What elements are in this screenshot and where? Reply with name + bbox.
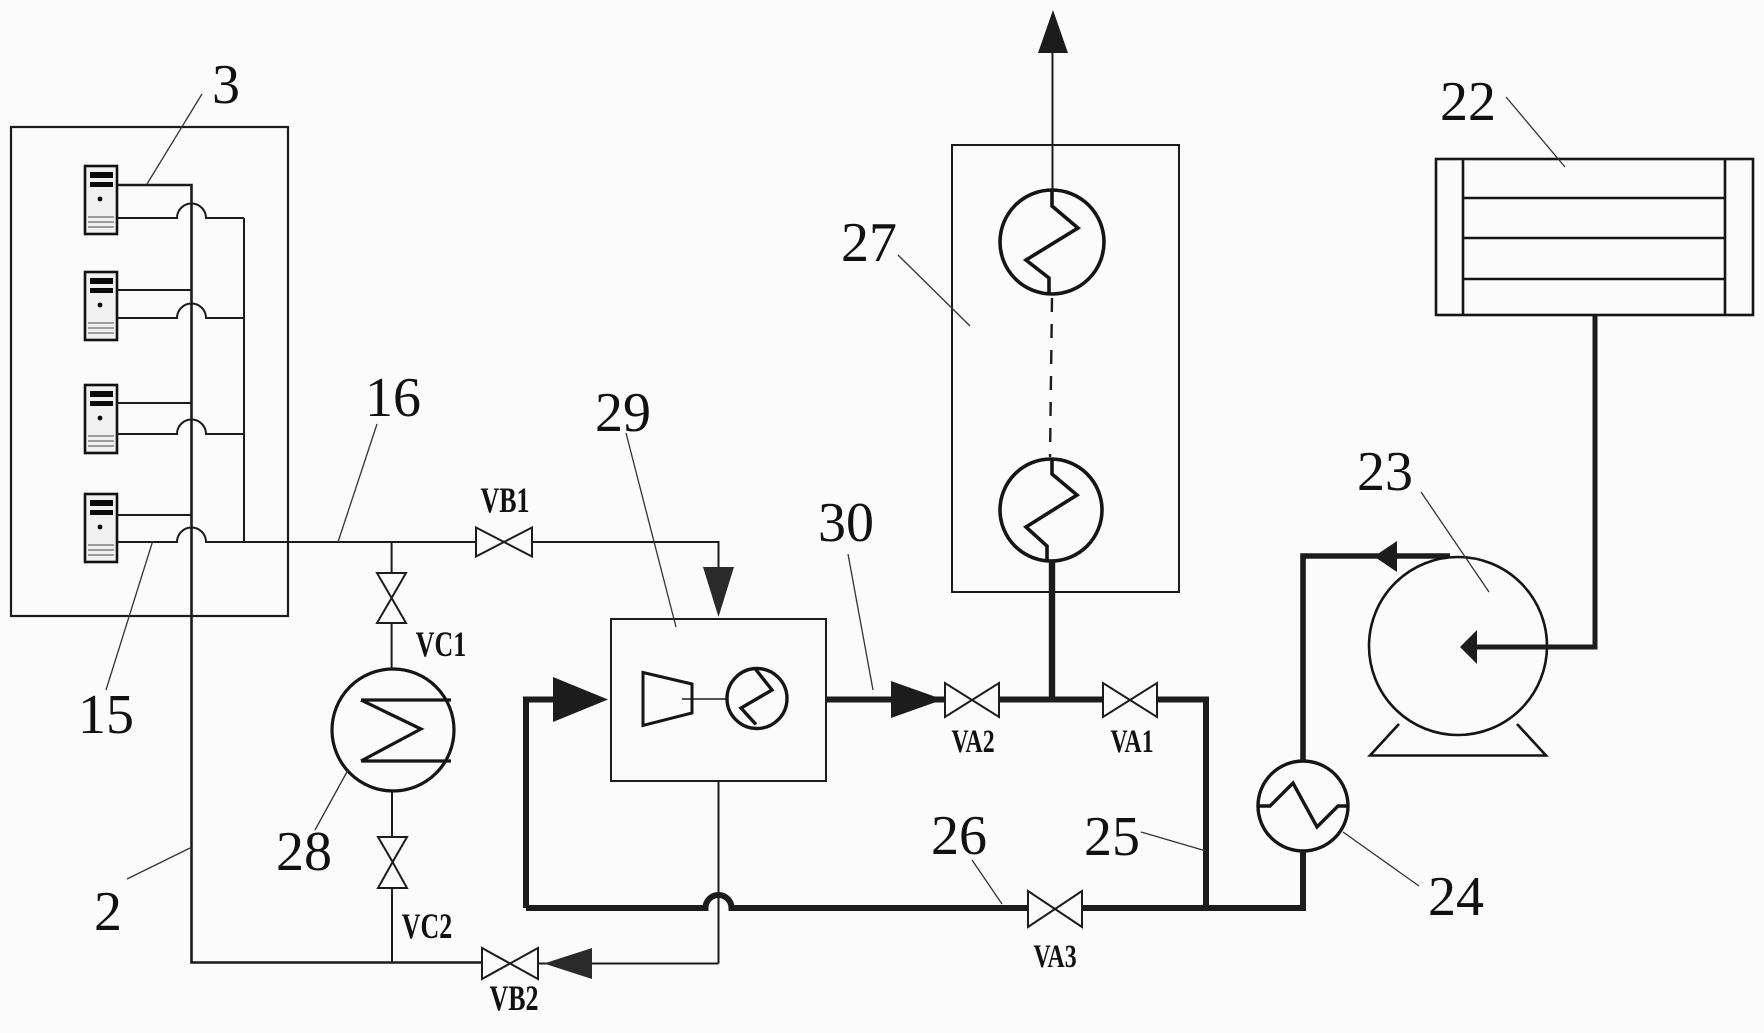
wire: supply manifold (node 2) from server S1 down-left and along bottom to VB2 <box>117 185 481 963</box>
wire: thick line after VA1 turning down (node 25) <box>1157 700 1206 909</box>
svg-text:16: 16 <box>365 367 421 429</box>
wire: thick line above circle 24 to pump outlet level <box>1303 556 1450 761</box>
leader for 22 <box>1506 97 1565 167</box>
svg-text:27: 27 <box>841 212 897 274</box>
arrow: into pump center <box>1460 630 1477 664</box>
wire: thick line below circle 24 to bottom line <box>1300 851 1306 908</box>
pump 23 stand <box>1370 724 1546 756</box>
wire: thick line VA2 to VA1 <box>999 697 1103 703</box>
wire: pump inlet from radiator with arrow to pump center <box>1470 313 1595 647</box>
heat exchanger circle 24 <box>1258 761 1348 851</box>
svg-text:30: 30 <box>818 492 874 554</box>
arrow: flow right toward VA2 <box>891 681 943 718</box>
leader for 2 <box>127 848 190 879</box>
wire: server S3 bottom line with hop <box>117 420 244 435</box>
svg-text:24: 24 <box>1428 866 1484 928</box>
leader for 16 <box>338 424 377 542</box>
leader for 27 <box>898 255 970 326</box>
shaft line in box 29 <box>682 698 737 700</box>
wire: vent line above 27 with up arrow <box>1052 53 1054 191</box>
svg-text:2: 2 <box>94 881 122 943</box>
svg-text:VC1: VC1 <box>416 624 466 664</box>
leader for 15 <box>106 542 153 691</box>
arrow: into box 29 left <box>553 677 608 722</box>
compressor box 29 <box>611 619 826 781</box>
leader for 24 <box>1343 832 1419 886</box>
wire: thick line from 27 bottom circle to main line <box>1049 560 1055 702</box>
wire: server S1 bottom line with hop to return manifold <box>117 204 244 219</box>
pump 23 circle <box>1369 557 1547 735</box>
svg-text:23: 23 <box>1357 441 1413 503</box>
wire: bypass riser from box 29 bottom <box>718 781 720 964</box>
valve VA2 <box>945 683 999 717</box>
svg-text:VB1: VB1 <box>481 480 530 520</box>
svg-text:VB2: VB2 <box>490 978 539 1018</box>
wire: thick suction line into box 29 (left loop) <box>526 700 556 909</box>
svg-text:28: 28 <box>276 821 332 883</box>
wire: dashed link between 27 circles <box>1050 298 1052 457</box>
wire: thick bottom line (node 26) with hop over bypass riser <box>526 895 1306 908</box>
motor circle in box 29 <box>727 669 787 729</box>
svg-text:VA2: VA2 <box>951 723 994 760</box>
valve VA1 <box>1103 683 1157 717</box>
arrow: up exhaust <box>1038 10 1068 53</box>
leader for 3 <box>147 94 202 184</box>
server S1 <box>85 166 117 234</box>
condenser unit 27 rectangle <box>952 145 1179 592</box>
leader for 23 <box>1421 492 1489 592</box>
wire: return manifold vertical (node 15) <box>243 218 245 542</box>
valve VB2 <box>482 948 538 979</box>
valve VA3 <box>1028 891 1082 927</box>
arrow: down into box 29 <box>703 567 734 617</box>
wire: server S3 top line <box>117 402 192 404</box>
svg-text:29: 29 <box>595 382 651 444</box>
wire: thick discharge line from box 29 to VA2 <box>826 697 945 703</box>
heat exchanger circle 28 <box>332 669 454 791</box>
heat exchanger circle 27 top <box>1000 190 1104 294</box>
arrow: flow left on pump outlet line <box>1374 541 1397 572</box>
leader for 26 <box>972 860 1002 904</box>
valve VB1 <box>476 528 532 557</box>
box 3 (server cabinet enclosure) <box>11 127 288 616</box>
wire: from bypass riser to VB2 <box>538 963 719 965</box>
leader for 29 <box>626 433 676 627</box>
server S3 <box>85 385 117 453</box>
wire: server S4 top line <box>117 514 192 516</box>
wire: server S2 top line <box>117 289 192 291</box>
wire: server S2 bottom line with hop <box>117 304 244 319</box>
svg-text:22: 22 <box>1440 71 1496 133</box>
svg-text:25: 25 <box>1084 806 1140 868</box>
svg-text:VA1: VA1 <box>1110 723 1153 760</box>
leader for 25 <box>1141 832 1206 851</box>
arrow: flow left toward VB2 <box>544 948 592 979</box>
svg-text:3: 3 <box>212 54 240 116</box>
svg-text:26: 26 <box>931 805 987 867</box>
svg-text:VC2: VC2 <box>402 906 452 946</box>
svg-text:15: 15 <box>78 684 134 746</box>
valve VC2 <box>378 791 407 962</box>
leader for 30 <box>848 554 873 690</box>
server S4 <box>85 494 117 562</box>
svg-text:VA3: VA3 <box>1033 938 1076 975</box>
server S2 <box>85 272 117 340</box>
radiator 22 <box>1436 159 1753 315</box>
wire: line 16 from server S4 bottom through VB1 to compressor box inlet <box>117 528 719 568</box>
heat exchanger circle 27 bottom <box>1000 459 1102 561</box>
compressor cone inside box 29 <box>643 673 692 726</box>
valve VC1 <box>377 542 406 669</box>
leader for 28 <box>315 770 348 830</box>
